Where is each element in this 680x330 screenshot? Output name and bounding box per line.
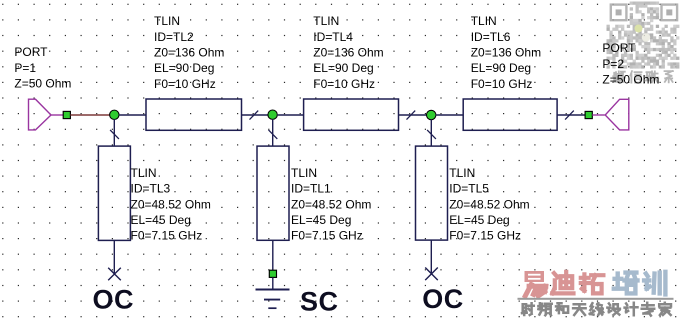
svg-text:P=2: P=2 — [602, 57, 624, 71]
transmission line TL4 — [304, 99, 399, 130]
watermark logo rule — [518, 298, 674, 300]
wire N1 down to TL3 — [113, 119, 115, 146]
pin tick TL5 — [427, 130, 436, 139]
wire port1 lead — [51, 114, 63, 116]
svg-text:OC: OC — [422, 284, 464, 314]
svg-text:F0=7.15 GHz: F0=7.15 GHz — [449, 229, 521, 243]
svg-text:F0=10 GHz: F0=10 GHz — [154, 77, 216, 91]
svg-text:EL=90 Deg: EL=90 Deg — [471, 61, 531, 75]
wire N2 to TL4 — [277, 114, 304, 116]
pin tick TL3 — [110, 130, 119, 139]
svg-text:Z0=48.52 Ohm: Z0=48.52 Ohm — [291, 197, 371, 211]
label TL1 — [291, 166, 371, 243]
transmission line TL2 — [146, 99, 242, 130]
ground symbol — [256, 290, 290, 309]
svg-text:ID=TL4: ID=TL4 — [313, 30, 353, 44]
watermark logo big text — [525, 271, 666, 296]
svg-text:F0=10 GHz: F0=10 GHz — [471, 77, 533, 91]
wire TL3 down — [113, 240, 115, 274]
svg-text:EL=45 Deg: EL=45 Deg — [449, 213, 509, 227]
svg-text:TLIN: TLIN — [291, 166, 317, 180]
svg-text:Z0=48.52 Ohm: Z0=48.52 Ohm — [449, 197, 529, 211]
port P2 connector square — [585, 111, 592, 118]
svg-text:ID=TL6: ID=TL6 — [471, 30, 511, 44]
node N3 — [427, 110, 436, 119]
label TL3 — [131, 166, 211, 243]
svg-text:EL=45 Deg: EL=45 Deg — [131, 213, 191, 227]
wire P1 to node N1 (red) — [70, 114, 110, 116]
wire TL1 down to gnd square — [272, 240, 274, 270]
node N2 — [268, 110, 277, 119]
node N1 — [110, 110, 119, 119]
svg-text:Z0=48.52 Ohm: Z0=48.52 Ohm — [131, 197, 211, 211]
open circuit X (TL3) — [108, 268, 121, 281]
svg-text:Z0=136 Ohm: Z0=136 Ohm — [471, 45, 541, 59]
svg-text:ID=TL5: ID=TL5 — [449, 182, 489, 196]
label port P1 — [14, 45, 71, 90]
svg-text:Z0=136 Ohm: Z0=136 Ohm — [154, 45, 224, 59]
label TL4 — [313, 14, 383, 91]
wire N1 to TL2 — [119, 114, 146, 116]
svg-text:TLIN: TLIN — [449, 166, 475, 180]
open circuit X (TL5) — [425, 268, 438, 281]
pin tick TL1 — [269, 130, 278, 139]
transmission line TL6 — [463, 99, 557, 130]
svg-text:PORT: PORT — [602, 41, 636, 55]
watermark logo subtitle — [522, 303, 671, 316]
port P2 — [605, 99, 629, 130]
port P1 — [29, 99, 52, 130]
wire TL6 to P2 — [557, 114, 585, 116]
wire N3 to TL6 — [436, 114, 464, 116]
svg-text:F0=7.15 GHz: F0=7.15 GHz — [291, 229, 363, 243]
svg-text:EL=90 Deg: EL=90 Deg — [313, 61, 373, 75]
svg-text:Z=50 Ohm: Z=50 Ohm — [602, 72, 659, 86]
svg-text:ID=TL1: ID=TL1 — [291, 182, 331, 196]
svg-text:Z=50 Ohm: Z=50 Ohm — [14, 76, 71, 90]
label TL5 — [449, 166, 529, 243]
svg-text:TLIN: TLIN — [131, 166, 157, 180]
svg-text:SC: SC — [300, 287, 339, 317]
label TL6 — [471, 14, 541, 91]
svg-text:F0=10 GHz: F0=10 GHz — [313, 77, 375, 91]
wire N2 down to TL1 — [272, 119, 274, 146]
svg-text:OC: OC — [93, 285, 135, 315]
watermark text (gray CJK) — [613, 71, 673, 83]
svg-text:Z0=136 Ohm: Z0=136 Ohm — [313, 45, 383, 59]
wire port2 lead — [592, 114, 605, 116]
svg-text:EL=90 Deg: EL=90 Deg — [154, 61, 214, 75]
pin tick TL6 — [565, 111, 574, 120]
stub TL1 — [257, 146, 289, 240]
watermark QR code — [607, 2, 680, 69]
svg-text:TLIN: TLIN — [154, 14, 180, 28]
wire TL4 to N3 — [399, 114, 427, 116]
label port P2 — [602, 41, 659, 86]
svg-text:TLIN: TLIN — [313, 14, 339, 28]
wire TL2 to N2 — [242, 114, 269, 116]
pin tick TL2 — [250, 111, 259, 120]
pin tick TL4 — [407, 111, 416, 120]
svg-text:EL=45 Deg: EL=45 Deg — [291, 213, 351, 227]
svg-text:P=1: P=1 — [14, 61, 36, 75]
port P1 connector square — [63, 111, 70, 118]
stub TL3 — [98, 146, 130, 240]
svg-text:ID=TL2: ID=TL2 — [154, 30, 194, 44]
wire square to ground — [272, 277, 274, 289]
label TL2 — [154, 14, 224, 91]
svg-text:TLIN: TLIN — [471, 14, 497, 28]
wire TL5 down — [430, 240, 432, 274]
svg-text:PORT: PORT — [14, 45, 48, 59]
gnd connector square — [269, 270, 276, 277]
svg-text:ID=TL3: ID=TL3 — [131, 182, 171, 196]
stub TL5 — [416, 146, 448, 240]
wire N3 down to TL5 — [430, 119, 432, 146]
svg-text:F0=7.15 GHz: F0=7.15 GHz — [131, 229, 203, 243]
